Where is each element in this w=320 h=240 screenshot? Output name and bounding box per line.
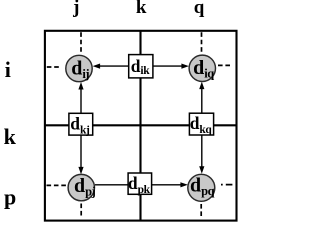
dashed wire top border to d_ij — [80, 32, 82, 53]
node d_ij circle — [66, 55, 92, 81]
svg-text:j: j — [72, 0, 79, 18]
arrow d_ik to d_ij — [97, 65, 129, 67]
wire d_pj to d_pk (no arrowhead) — [95, 184, 128, 186]
outer box — [45, 31, 237, 221]
node d_pk square — [128, 173, 152, 194]
node d_pj circle — [68, 174, 94, 200]
inner vertical line (k column) — [139, 31, 141, 221]
dashed wire d_pq to right border — [221, 184, 233, 186]
node d_kq square — [189, 113, 213, 135]
dashed wire d_pq to bottom border — [200, 204, 202, 218]
arrow d_ik to d_iq — [153, 65, 185, 67]
dashed wire d_pj to bottom border — [80, 204, 82, 218]
node d_ik square — [129, 55, 153, 78]
dashed wire left border to d_ij — [47, 66, 60, 68]
arrow d_kj to d_ij — [80, 87, 82, 113]
arrow d_kq to d_iq — [201, 86, 203, 113]
inner horizontal line (k row) — [45, 124, 237, 126]
svg-text:k: k — [136, 0, 147, 18]
dashed wire d_iq to right border — [218, 64, 232, 66]
node d_pq circle — [188, 174, 215, 201]
node d_iq circle — [189, 55, 215, 81]
dashed wire top border to d_iq — [201, 32, 203, 53]
arrow d_kj to d_pj — [80, 136, 82, 171]
arrow d_pk to d_pq — [152, 184, 184, 186]
svg-text:q: q — [194, 0, 205, 18]
node d_kj square — [69, 113, 93, 135]
arrow d_kq to d_pq — [201, 136, 203, 170]
dashed wire left border to d_pj — [47, 184, 68, 186]
svg-text:p: p — [4, 185, 16, 210]
svg-text:i: i — [5, 57, 11, 82]
svg-text:k: k — [4, 124, 17, 149]
